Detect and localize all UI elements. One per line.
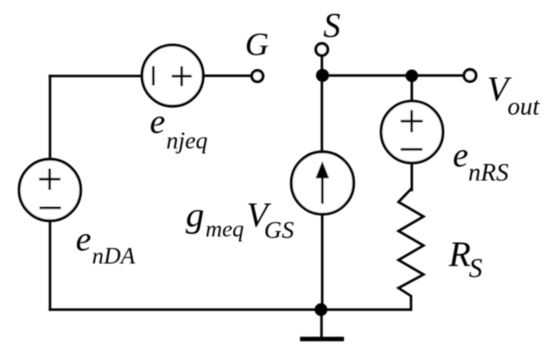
svg-text:e: e	[453, 136, 469, 175]
svg-text:S: S	[323, 7, 340, 45]
svg-text:G: G	[245, 27, 269, 63]
svg-text:g: g	[186, 195, 205, 234]
svg-text:meq: meq	[206, 217, 244, 242]
svg-text:S: S	[469, 253, 483, 283]
svg-text:nRS: nRS	[468, 159, 509, 186]
svg-text:nDA: nDA	[92, 244, 136, 270]
svg-text:R: R	[448, 234, 471, 274]
svg-text:e: e	[150, 102, 166, 141]
svg-text:njeq: njeq	[166, 128, 207, 154]
svg-text:out: out	[508, 93, 541, 120]
svg-text:GS: GS	[264, 217, 294, 244]
svg-text:e: e	[76, 220, 92, 259]
